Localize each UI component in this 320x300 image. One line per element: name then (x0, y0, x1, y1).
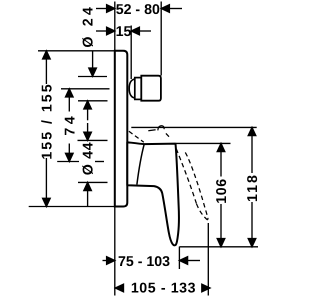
plate top extension line L1 (38, 50, 115, 52)
raised handle top extension line L118 (131, 126, 256, 128)
bottom reference extension line LBOT (179, 246, 258, 248)
dimension Ø44 arrows (84, 123, 92, 206)
hub axis extension line L5 (57, 161, 79, 163)
knob body (141, 76, 161, 101)
dimension 105-133 (115, 284, 210, 292)
dimension 15 (96, 27, 151, 35)
wall plate (escutcheon, side view) (115, 51, 128, 207)
svg-text:74: 74 (62, 113, 78, 136)
sleeve extension line V3 (130, 26, 132, 80)
knob step cylinder (135, 78, 142, 100)
plate bottom extension line L7 (29, 206, 115, 208)
hub top extension line L4b (78, 139, 108, 141)
handle tip extension line V4 (178, 247, 180, 269)
dimension 75-103 (103, 257, 201, 265)
dimension 118 (248, 127, 256, 246)
svg-text:106: 106 (214, 178, 230, 203)
dashed handle tip arc (197, 204, 208, 221)
knob bottom extension line L4 (78, 100, 108, 102)
wall extension line V1 bottom (114, 207, 116, 296)
dimension 106 (217, 143, 225, 246)
lever handle (side view) (127, 142, 179, 245)
dashed-handle tip extension line V5 (207, 223, 209, 296)
svg-text:Ø 24: Ø 24 (81, 4, 97, 48)
dashed raised-handle back edge (129, 131, 144, 142)
svg-text:15: 15 (116, 24, 132, 40)
knob top extension line L2 (78, 76, 107, 78)
svg-text:Ø 44: Ø 44 (81, 142, 97, 176)
handle top extension line L106 (176, 142, 231, 144)
knob axis extension line L3 (61, 88, 110, 90)
dashed swing edge right (185, 152, 208, 219)
dimension Ø24 arrows (84, 51, 97, 120)
dashed swing edge left (176, 149, 196, 204)
svg-text:52 - 80: 52 - 80 (116, 2, 160, 18)
dimension 52-80 (96, 5, 182, 13)
svg-text:105 - 133: 105 - 133 (131, 281, 196, 297)
dimension 155/155 (43, 51, 51, 207)
dimension 74 (66, 89, 74, 162)
wall extension line V1 top (114, 2, 116, 51)
svg-text:155 / 155: 155 / 155 (40, 82, 56, 159)
handle back slant line (137, 144, 144, 184)
knob neck (129, 79, 135, 98)
svg-text:75 - 103: 75 - 103 (118, 254, 170, 270)
svg-text:118: 118 (245, 173, 261, 202)
hub bottom extension line L6 (78, 181, 108, 183)
knob front extension line V2 (160, 2, 162, 76)
dashed raised-handle top curl (148, 126, 169, 137)
